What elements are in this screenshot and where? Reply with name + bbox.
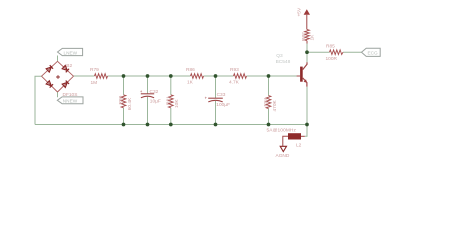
junction: R84 top — [267, 74, 271, 78]
wire: R80 top stub — [123, 76, 125, 95]
wire: top bus segment R93 to Q3 base — [247, 75, 297, 77]
net flag ECG — [362, 48, 381, 56]
junction: C33 bottom — [214, 123, 218, 127]
diode on bottom-left arm (points down-right) — [46, 81, 53, 88]
junction: R80 bottom — [122, 123, 126, 127]
arm bottom-left — [42, 76, 58, 92]
svg-text:Q3: Q3 — [276, 53, 283, 59]
svg-text:R81: R81 — [165, 96, 171, 105]
svg-text:LNEW: LNEW — [64, 50, 78, 55]
svg-text:ECG: ECG — [368, 50, 379, 55]
svg-text:470K: 470K — [272, 99, 278, 111]
resistor R80 (vertical) — [121, 95, 126, 108]
emitter lead — [303, 78, 307, 87]
svg-text:4.7K: 4.7K — [229, 80, 240, 86]
svg-text:R80: R80 — [118, 95, 124, 104]
wire: R80 bottom stub — [123, 108, 125, 125]
arm bottom-right — [58, 76, 74, 92]
net flag NNEW — [57, 97, 83, 104]
wire: collector vertical — [306, 52, 308, 62]
net flag LNEW — [58, 48, 83, 55]
wire: emitter vertical to bottom bus — [306, 87, 308, 125]
resistor R93 — [234, 74, 247, 79]
svg-text:R93: R93 — [230, 67, 239, 73]
svg-text:B2: B2 — [66, 63, 72, 69]
wire: C32 top stub — [147, 76, 149, 94]
svg-text:+5V: +5V — [297, 7, 303, 16]
wire: top bus segment R86 to R93 — [204, 75, 234, 77]
wire: R81 bottom stub — [170, 108, 172, 125]
wire: left riser from bridge left vertex down to bottom bus — [35, 76, 42, 124]
wire: bridge bottom vertex to NNEW flag — [57, 92, 59, 97]
capacitor C32 (polarized) — [140, 89, 154, 98]
svg-text:1K: 1K — [187, 80, 194, 86]
wire: top bus segment R79 to R86 — [108, 75, 191, 77]
svg-text:100R: 100R — [326, 56, 338, 62]
svg-text:5A@100MHz: 5A@100MHz — [267, 127, 297, 133]
svg-text:C33: C33 — [217, 92, 226, 98]
bridge rectifier B2 DF10S — [42, 61, 74, 92]
wire: collector junction to R85 — [307, 51, 330, 53]
resistor R82 (vertical, collector pull-up) — [305, 30, 310, 41]
diode on top-right arm (points down-right) — [62, 65, 69, 72]
junction: R81 top — [169, 74, 173, 78]
svg-text:R86: R86 — [186, 67, 195, 73]
svg-text:NNEW: NNEW — [63, 99, 78, 104]
capacitor C33 (polarized) — [205, 95, 223, 102]
resistor R84 (vertical) — [266, 96, 271, 109]
plus mark inside bridge — [56, 75, 60, 79]
svg-text:10µF: 10µF — [150, 99, 161, 105]
junction: R84 bottom — [267, 123, 271, 127]
junction: C32 top — [146, 74, 150, 78]
svg-text:R84: R84 — [263, 97, 269, 106]
wire: R81 top stub — [170, 76, 172, 95]
wire: top bus segment bridge to R79 — [74, 75, 95, 77]
arm top-right — [58, 61, 74, 76]
wire: C32 bottom stub — [147, 97, 149, 125]
junction: R80 top — [122, 74, 126, 78]
base bar — [300, 67, 303, 82]
resistor R79 — [95, 74, 108, 79]
wire: C33 bottom stub — [215, 101, 217, 125]
wire: C33 top stub — [215, 76, 217, 98]
transistor Q3 BC548 (NPN) — [297, 62, 307, 86]
svg-text:AGND: AGND — [276, 153, 290, 159]
wire: R82 bottom to collector junction — [306, 44, 308, 53]
wire: R82 bottom red pin — [306, 41, 308, 44]
resistor R85 — [330, 50, 344, 55]
wire: R85 to ECG flag — [343, 51, 362, 53]
junction: collector / R82 / R85 — [305, 50, 309, 54]
svg-text:60.4K: 60.4K — [127, 97, 133, 110]
svg-text:R82: R82 — [301, 32, 307, 41]
svg-text:1M: 1M — [91, 80, 98, 86]
power +5V symbol — [304, 9, 310, 29]
ground AGND symbol — [280, 146, 286, 151]
base pin — [297, 75, 301, 77]
resistor R86 — [191, 74, 204, 79]
wire: LNEW flag stub to bridge top vertex — [57, 56, 59, 62]
svg-text:1K: 1K — [310, 34, 316, 41]
wire: R84 top stub — [268, 76, 270, 96]
junction: R81 bottom — [169, 123, 173, 127]
svg-text:R79: R79 — [90, 67, 99, 73]
svg-text:L2: L2 — [296, 143, 302, 149]
junction: emitter / L2 at bottom bus — [305, 123, 309, 127]
svg-text:C32: C32 — [150, 89, 159, 95]
arm top-left — [42, 61, 58, 76]
ferrite bead L2 — [283, 133, 305, 146]
diode on top-left arm (points up-right) — [46, 65, 53, 72]
svg-text:10K: 10K — [174, 99, 180, 108]
emitter arrow — [304, 79, 307, 82]
diode on bottom-right arm (points up-right) — [62, 81, 69, 88]
svg-text:R85: R85 — [326, 44, 335, 50]
svg-text:BC548: BC548 — [276, 59, 291, 65]
resistor R81 (vertical) — [169, 95, 174, 108]
wire: bottom bus junction down to ferrite bead L2 — [305, 125, 307, 137]
svg-text:100µF: 100µF — [216, 102, 230, 108]
junction: C33 top — [214, 74, 218, 78]
wire: bottom bus — [35, 124, 307, 126]
wire: R84 bottom stub — [268, 109, 270, 125]
junction: C32 bottom — [146, 123, 150, 127]
collector lead — [303, 62, 307, 69]
